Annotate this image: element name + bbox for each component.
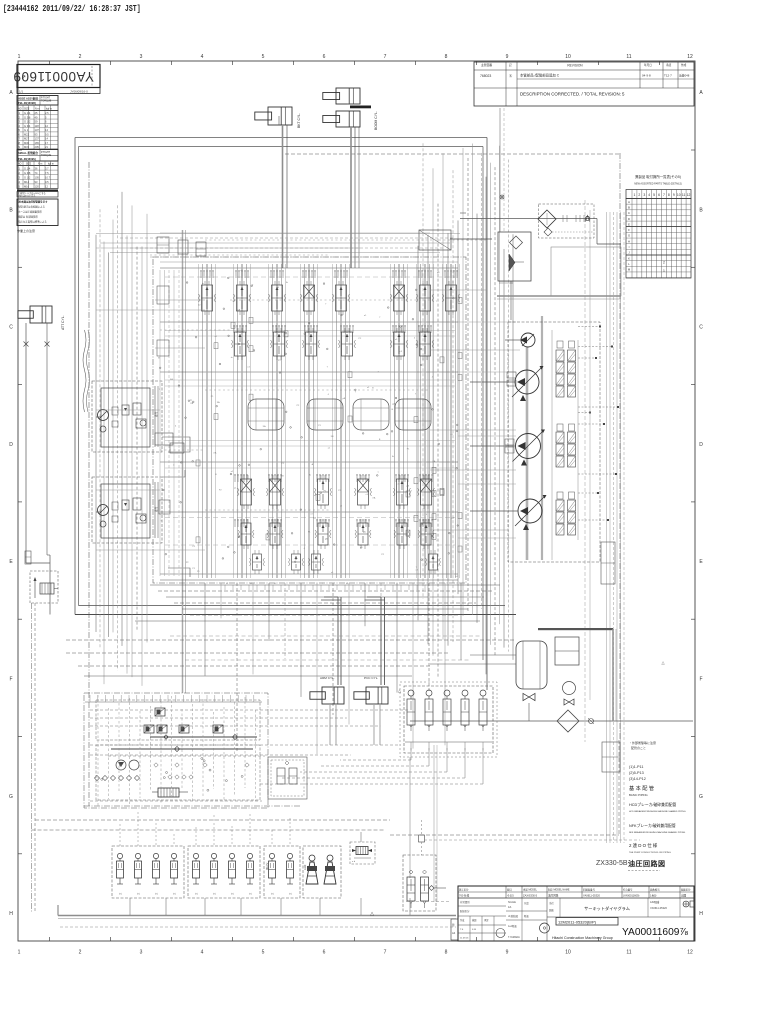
svg-text:ATT CYL.: ATT CYL.	[61, 315, 65, 330]
svg-text:M33: M33	[24, 145, 30, 149]
svg-text:1: 1	[663, 269, 665, 273]
svg-text:T.S: T.S	[460, 929, 464, 931]
svg-text:(1)1-P11: (1)1-P11	[629, 765, 644, 769]
svg-text:G 3/8: G 3/8	[24, 171, 31, 175]
svg-text:10: 10	[565, 950, 571, 956]
svg-text:T12·7: T12·7	[664, 74, 672, 78]
svg-text:205: 205	[35, 145, 40, 149]
svg-text:dr: dr	[398, 482, 400, 485]
svg-text:承認: 承認	[666, 63, 672, 67]
svg-text:図面: 図面	[549, 908, 554, 912]
svg-text:(3)14-P12: (3)14-P12	[629, 777, 646, 781]
svg-text:D: D	[9, 442, 13, 448]
svg-text:12: 12	[687, 950, 693, 956]
svg-text:異製品 取付篇所一覧表(その5): 異製品 取付篇所一覧表(その5)	[635, 174, 681, 179]
svg-text:制定 MODEL NAME: 制定 MODEL NAME	[548, 888, 570, 892]
svg-text:出図: 出図	[681, 894, 687, 898]
svg-text:11.09.16: 11.09.16	[460, 938, 469, 940]
svg-text:kgf·m: kgf·m	[46, 107, 52, 110]
svg-text:120: 120	[35, 185, 40, 189]
svg-text:打合番号: 打合番号	[623, 888, 633, 892]
svg-text:G 3/8: G 3/8	[24, 115, 31, 119]
svg-text:G 1/4: G 1/4	[24, 166, 31, 170]
svg-text:サーキットダイヤグラム: サーキットダイヤグラム	[584, 905, 630, 912]
svg-text:要目: 要目	[507, 888, 512, 892]
svg-text:M30: M30	[24, 141, 30, 145]
svg-text:M16: M16	[24, 185, 30, 189]
svg-text:105: 105	[35, 176, 40, 180]
svg-text:dr: dr	[251, 283, 253, 286]
svg-text:ホ: ホ	[213, 892, 217, 895]
svg-text:[23444162 2011/09/22/ 16:28:37: [23444162 2011/09/22/ 16:28:37 JST]	[3, 4, 141, 14]
svg-text:N·m: N·m	[38, 163, 42, 165]
svg-text:8: 8	[445, 54, 448, 60]
svg-text:G 1/4: G 1/4	[24, 111, 31, 115]
svg-text:5: 5	[262, 950, 265, 956]
svg-text:K: K	[628, 256, 630, 260]
svg-text:REVISION: REVISION	[567, 64, 583, 68]
svg-text:尺度: 尺度	[524, 901, 529, 905]
svg-text:118: 118	[35, 124, 40, 128]
svg-text:当社: 当社	[549, 901, 554, 905]
svg-text:ホ: ホ	[271, 892, 275, 895]
svg-text:指示なき篇所は標準による: 指示なき篇所は標準による	[18, 220, 47, 224]
svg-text:1/1: 1/1	[508, 905, 512, 909]
svg-text:承認 MODEL: 承認 MODEL	[523, 888, 538, 892]
svg-text:ZAXIS330-5: ZAXIS330-5	[523, 894, 538, 898]
svg-text:2 連 D O 仕 様: 2 連 D O 仕 様	[629, 842, 658, 849]
svg-text:165: 165	[35, 141, 40, 145]
svg-text:760 仕様: 760 仕様	[459, 894, 470, 898]
svg-text:ARM CYL.: ARM CYL.	[320, 676, 335, 680]
svg-text:SIZE: SIZE	[26, 163, 32, 165]
svg-text:E: E	[628, 222, 630, 226]
svg-text:作成: 作成	[681, 63, 687, 67]
svg-text:図面区分: 図面区分	[681, 888, 691, 892]
svg-text:走行: 走行	[154, 411, 158, 417]
svg-text:PCC CYL.: PCC CYL.	[364, 676, 378, 680]
svg-text:6: 6	[323, 950, 326, 956]
svg-text:6: 6	[323, 54, 326, 60]
svg-text:7: 7	[384, 950, 387, 956]
svg-text:2: 2	[79, 54, 82, 60]
svg-text:2: 2	[663, 261, 665, 265]
svg-text:TORQUE: TORQUE	[41, 154, 52, 157]
svg-text:替: 替	[452, 923, 455, 927]
svg-text:MLCV: MLCV	[265, 863, 269, 870]
svg-text:BASIC PIPING: BASIC PIPING	[629, 793, 648, 797]
svg-text:8: 8	[668, 193, 670, 197]
svg-text:非常識別: 非常識別	[460, 900, 470, 904]
svg-text:ホ: ホ	[249, 892, 253, 895]
svg-text:1: 1	[634, 193, 636, 197]
svg-text:10.7: 10.7	[45, 176, 51, 180]
svg-text:G 3/4: G 3/4	[24, 124, 31, 128]
svg-text:(2)5-P13: (2)5-P13	[629, 771, 644, 775]
svg-text:G 1/2: G 1/2	[24, 176, 31, 180]
svg-text:油圧回路: 油圧回路	[548, 894, 559, 898]
svg-text:F: F	[9, 677, 12, 683]
svg-text:H: H	[9, 911, 13, 917]
svg-text:1: 1	[18, 54, 21, 60]
svg-text:配管,継手は各組図による: 配管,継手は各組図による	[18, 205, 45, 209]
svg-text:137: 137	[35, 128, 40, 132]
svg-text:12: 12	[687, 193, 691, 197]
svg-text:TBL-ID(1609S): TBL-ID(1609S)	[18, 157, 36, 161]
svg-text:dr: dr	[231, 356, 233, 359]
svg-text:SCALE: SCALE	[508, 901, 516, 904]
svg-text:記: 記	[509, 63, 512, 67]
svg-text:dr: dr	[340, 505, 342, 508]
svg-text:H: H	[628, 239, 630, 243]
svg-text:9: 9	[673, 193, 675, 197]
svg-text:10: 10	[565, 54, 571, 60]
svg-text:1台分: 1台分	[650, 894, 657, 898]
svg-text:取扱区分: 取扱区分	[460, 909, 470, 913]
svg-text:ホースは圧縮図番参照: ホースは圧縮図番参照	[18, 210, 42, 214]
svg-text:注)本図は油圧配管図を示す: 注)本図は油圧配管図を示す	[18, 200, 48, 204]
svg-text:ホ: ホ	[173, 892, 177, 895]
svg-text:NFKブレーカ/破碎兼用配管: NFKブレーカ/破碎兼用配管	[629, 823, 676, 828]
svg-text:A: A	[628, 200, 630, 204]
svg-text:12M2011-05320(B/P): 12M2011-05320(B/P)	[558, 920, 597, 925]
svg-text:5: 5	[653, 193, 655, 197]
svg-text:2: 2	[638, 193, 640, 197]
svg-text:走行: 走行	[154, 506, 158, 512]
svg-text:ホ: ホ	[155, 892, 159, 895]
svg-text:作業上の注意: 作業上の注意	[17, 228, 35, 233]
svg-text:A4: A4	[452, 931, 456, 935]
svg-text:F: F	[628, 228, 630, 232]
svg-text:C: C	[699, 325, 703, 331]
svg-text:4: 4	[201, 950, 204, 956]
svg-text:B: B	[628, 205, 630, 209]
svg-text:員数相当: 員数相当	[650, 888, 660, 892]
svg-text:768023: 768023	[480, 74, 491, 78]
svg-text:TBL-ID(1609R): TBL-ID(1609R)	[18, 101, 36, 105]
svg-text:NO: NO	[18, 107, 22, 110]
svg-text:年月日: 年月日	[644, 63, 652, 67]
svg-text:基 本 配 管: 基 本 配 管	[629, 784, 654, 792]
svg-text:G 1: G 1	[24, 128, 29, 132]
svg-text:M14: M14	[24, 180, 30, 184]
svg-text:NFK BREAKER/CRUSHING MACHINE S: NFK BREAKER/CRUSHING MACHINE SHARED PIPI…	[629, 831, 685, 834]
svg-text:C: C	[9, 325, 13, 331]
svg-text:細部は 各部図参照: 細部は 各部図参照	[18, 215, 38, 219]
svg-text:9: 9	[506, 54, 509, 60]
svg-text:SIZE: SIZE	[24, 107, 30, 110]
svg-text:3.7: 3.7	[45, 166, 49, 170]
svg-text:11: 11	[626, 950, 631, 956]
svg-text:dr: dr	[202, 282, 204, 285]
svg-text:△: △	[370, 911, 374, 917]
svg-text:2.5: 2.5	[45, 111, 49, 115]
svg-text:ZX330-5B: ZX330-5B	[596, 860, 628, 867]
svg-text:ホ: ホ	[289, 892, 293, 895]
svg-text:近藤048: 近藤048	[679, 74, 690, 78]
svg-text:7.5: 7.5	[45, 171, 49, 175]
svg-text:主管図番: 主管図番	[481, 63, 492, 67]
svg-text:・外部衝撃等に注意: ・外部衝撃等に注意	[629, 740, 656, 745]
svg-text:SMALL 配管組合: SMALL 配管組合	[18, 151, 38, 155]
svg-text:G 1/2: G 1/2	[24, 120, 31, 124]
svg-text:11: 11	[682, 193, 686, 197]
svg-text:12M図番: 12M図番	[650, 900, 660, 904]
svg-text:BKT CYL.: BKT CYL.	[297, 113, 301, 128]
svg-text:施工区分: 施工区分	[459, 888, 469, 892]
svg-text:7: 7	[384, 54, 387, 60]
svg-text:137: 137	[35, 137, 40, 141]
svg-text:その5: その5	[507, 894, 514, 898]
svg-text:HCDブレーカ/破碎兼用配管: HCDブレーカ/破碎兼用配管	[629, 802, 676, 807]
svg-text:5: 5	[262, 54, 265, 60]
svg-text:NEW ASSORTED PARTS TABLE (DETA: NEW ASSORTED PARTS TABLE (DETAIL5)	[634, 183, 682, 186]
svg-text:Hitachi Construction Machinery: Hitachi Construction Machinery Group	[552, 936, 613, 940]
svg-text:JY06/09/16-0: JY06/09/16-0	[70, 90, 88, 94]
svg-text:3: 3	[643, 193, 645, 197]
svg-text:ホ: ホ	[137, 892, 141, 895]
svg-text:4: 4	[201, 54, 204, 60]
svg-text:TORQUE: TORQUE	[41, 100, 52, 103]
svg-text:9.5: 9.5	[45, 180, 49, 184]
svg-text:7: 7	[663, 193, 665, 197]
svg-text:BOOM CYL.: BOOM CYL.	[374, 111, 378, 130]
svg-text:YA0611-05320: YA0611-05320	[583, 894, 600, 898]
svg-text:N·m: N·m	[35, 107, 40, 110]
svg-text:YA0611-05320: YA0611-05320	[650, 906, 667, 910]
svg-text:ホ: ホ	[119, 892, 123, 895]
svg-text:K.M: K.M	[472, 929, 476, 931]
svg-text:旧図面番号: 旧図面番号	[583, 888, 596, 892]
svg-text:断面: 断面	[524, 914, 529, 918]
svg-text:油圧回路図: 油圧回路図	[628, 859, 666, 868]
svg-text:1/1: 1/1	[19, 90, 24, 94]
svg-text:4: 4	[648, 193, 650, 197]
svg-text:THE PUMP CONDUCTION FLOW PIPIN: THE PUMP CONDUCTION FLOW PIPING	[629, 852, 671, 854]
svg-text:HOSE ASSY組合: HOSE ASSY組合	[18, 97, 39, 101]
svg-text:本管部品 /配管部品追加 C: 本管部品 /配管部品追加 C	[520, 73, 560, 78]
svg-text:10: 10	[677, 193, 681, 197]
svg-text:G: G	[9, 794, 13, 800]
svg-text:kgf·m: kgf·m	[48, 163, 54, 165]
svg-text:H: H	[699, 911, 703, 917]
svg-text:6: 6	[658, 193, 660, 197]
svg-text:DESCRIPTION CORRECTED. / TOTAL: DESCRIPTION CORRECTED. / TOTAL REVISION:…	[520, 92, 625, 97]
svg-text:NO: NO	[18, 163, 22, 165]
svg-text:HCD BREAKER/CRUSHING MACHINE S: HCD BREAKER/CRUSHING MACHINE SHARED PIPI…	[629, 810, 686, 813]
svg-text:04·9·8: 04·9·8	[642, 74, 651, 78]
svg-text:M27: M27	[24, 137, 30, 141]
svg-text:T.YAMADA: T.YAMADA	[508, 936, 520, 939]
svg-text:F: F	[699, 677, 702, 683]
svg-text:YA00011609⅞: YA00011609⅞	[622, 927, 688, 938]
svg-text:(YA00011609): (YA00011609)	[623, 894, 639, 898]
svg-text:2: 2	[79, 950, 82, 956]
svg-text:G: G	[699, 794, 703, 800]
svg-text:ホ: ホ	[195, 892, 199, 895]
svg-text:of.締結図: of.締結図	[508, 914, 518, 918]
svg-text:AUX: AUX	[303, 864, 307, 870]
svg-text:ホ: ホ	[231, 892, 235, 895]
svg-text:M22: M22	[24, 132, 30, 136]
svg-text:3: 3	[140, 54, 143, 60]
svg-text:A-A断面: A-A断面	[508, 924, 517, 928]
svg-text:↗: ↗	[21, 75, 26, 81]
svg-text:3: 3	[140, 950, 143, 956]
svg-text:配管のこと: 配管のこと	[631, 745, 646, 750]
svg-text:8: 8	[445, 950, 448, 956]
svg-text:12: 12	[687, 54, 693, 60]
svg-text:D: D	[699, 442, 703, 448]
svg-text:1: 1	[18, 950, 21, 956]
svg-text:9: 9	[506, 950, 509, 956]
svg-text:9.5: 9.5	[45, 132, 49, 136]
svg-text:11: 11	[626, 54, 631, 60]
